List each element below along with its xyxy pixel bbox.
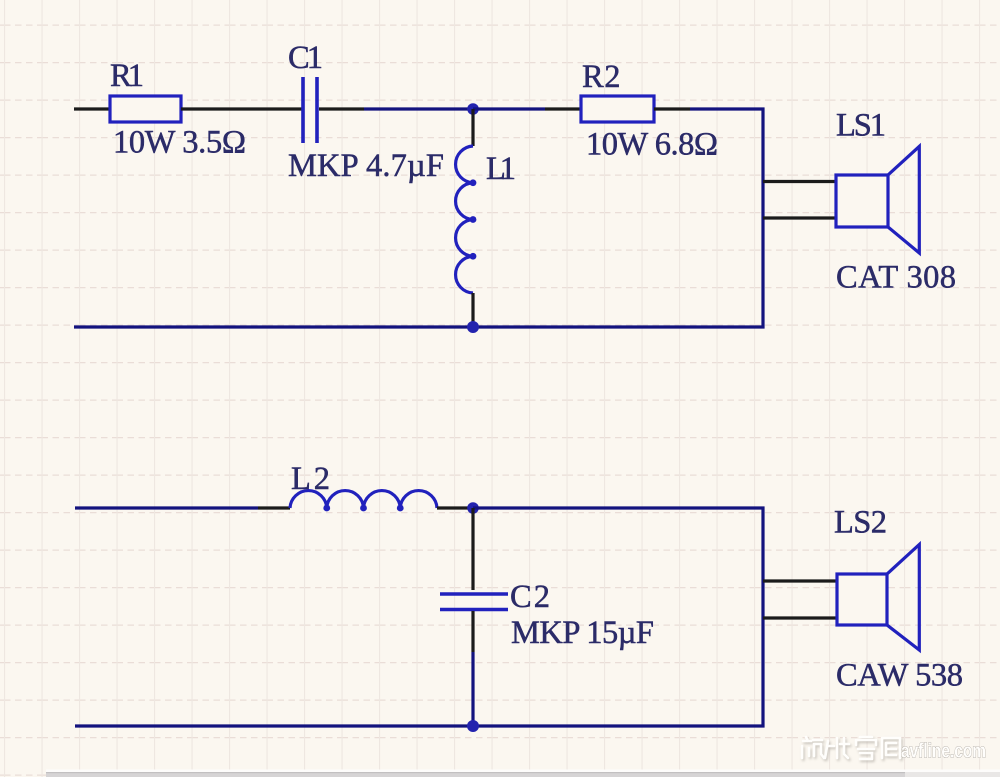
pin: LS2 top pin xyxy=(763,579,837,582)
wire: top circuit return bus xyxy=(74,325,765,328)
svg-text:R2: R2 xyxy=(582,59,621,95)
pin: R2 left pin xyxy=(545,107,581,110)
svg-text:LS1: LS1 xyxy=(836,108,886,144)
wire: right vertical bus LS2 xyxy=(761,507,764,728)
node C junction dot xyxy=(467,502,479,514)
wire: node C to right bus corner xyxy=(473,506,765,509)
pin: LS2 bottom pin xyxy=(763,616,837,619)
node D junction dot xyxy=(467,720,479,732)
inductor L2 xyxy=(290,491,437,512)
svg-text:MKP 15µF: MKP 15µF xyxy=(511,615,654,651)
resistor R1 xyxy=(110,96,181,122)
pin: R2 right pin xyxy=(654,107,690,110)
speaker LS1 xyxy=(836,146,919,253)
pin: L2 right pin xyxy=(437,506,473,509)
pin: LS1 bottom pin xyxy=(763,216,837,219)
wire: R1 to C1 xyxy=(181,107,302,110)
node B junction dot xyxy=(467,321,479,333)
pin: LS1 top pin xyxy=(763,180,837,183)
svg-text:10W 6.8Ω: 10W 6.8Ω xyxy=(586,127,718,163)
svg-text:10W 3.5Ω: 10W 3.5Ω xyxy=(113,125,246,161)
watermark 视听空间 avfline.com xyxy=(802,737,986,763)
speaker LS2 xyxy=(837,545,919,651)
pin: C1 right pin xyxy=(319,107,364,110)
capacitor C2 xyxy=(440,594,508,610)
svg-text:C2: C2 xyxy=(510,579,550,615)
svg-text:C1: C1 xyxy=(288,40,323,76)
svg-text:CAT 308: CAT 308 xyxy=(836,260,956,296)
pin: C2 top pin xyxy=(471,508,474,590)
svg-text:CAW 538: CAW 538 xyxy=(836,658,963,694)
node A junction dot xyxy=(467,103,479,115)
capacitor C1 xyxy=(303,77,317,143)
pin: C2 bottom pin xyxy=(471,611,474,652)
wire: R2 to right bus corner xyxy=(690,107,765,110)
wire: node A to R2 xyxy=(473,107,545,110)
photo edge gray band xyxy=(46,770,1000,777)
svg-text:LS2: LS2 xyxy=(834,505,887,541)
pin: L1 bottom pin xyxy=(471,293,474,327)
svg-text:MKP 4.7µF: MKP 4.7µF xyxy=(288,148,444,184)
svg-text:R1: R1 xyxy=(110,58,144,94)
wire: C2 to lower bus xyxy=(471,652,474,726)
wire: C1 to node A xyxy=(364,107,473,110)
resistor R2 xyxy=(581,96,654,122)
wire: lower return bus xyxy=(75,724,765,727)
svg-text:L2: L2 xyxy=(291,461,330,497)
inductor L1 xyxy=(456,146,477,293)
svg-text:L1: L1 xyxy=(486,151,516,187)
wire: right vertical bus LS1 xyxy=(761,108,764,329)
svg-text:avfline.com: avfline.com xyxy=(901,741,986,763)
pin: L2 left pin xyxy=(258,506,290,509)
wire: lower input lead xyxy=(75,506,258,509)
pin: L1 top pin xyxy=(471,109,474,146)
wire: input lead to R1 xyxy=(74,107,110,110)
